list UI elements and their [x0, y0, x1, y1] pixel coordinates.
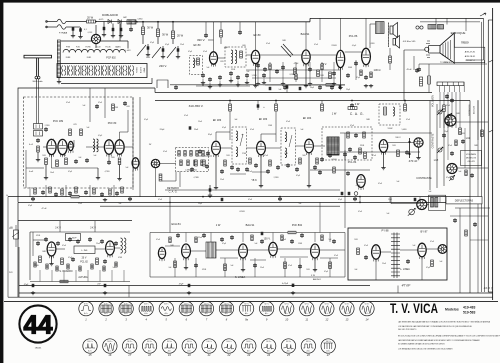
svg-text:47nF: 47nF [66, 102, 70, 104]
svg-text:47µF: 47µF [68, 171, 72, 173]
svg-text:47nF: 47nF [203, 51, 207, 53]
right margin tick b [489, 130, 493, 132]
svg-text:EN LOS ZOCALOS DE LOS CONECTOR: EN LOS ZOCALOS DE LOS CONECTORES LA CIFR… [398, 335, 500, 338]
svg-text:A/W-47-91: A/W-47-91 [465, 51, 476, 54]
capacitor lo 2 [406, 259, 410, 263]
capacitor under tube 2 [85, 158, 89, 162]
waveform circle 12 [320, 301, 334, 321]
svg-text:22nF: 22nF [220, 179, 224, 181]
right lower extra [450, 215, 488, 217]
svg-text:25nF: 25nF [96, 243, 100, 245]
svg-text:L.HFR: L.HFR [126, 50, 132, 52]
svg-text:47pF: 47pF [222, 243, 226, 245]
double line right col [481, 22, 483, 292]
wire crt 2 [446, 18, 448, 24]
svg-text:2nF: 2nF [169, 267, 172, 269]
coil interstage [93, 139, 95, 152]
resistor retardo r5 [202, 151, 204, 157]
resistor drop IF1 [229, 101, 231, 105]
wire bus B+ IF [155, 100, 470, 102]
svg-text:44: 44 [24, 310, 53, 340]
wire sound 1 [218, 57, 226, 59]
svg-text:0,1KF: 0,1KF [88, 32, 93, 34]
turret box [57, 64, 147, 78]
svg-text:1nF: 1nF [429, 191, 432, 193]
svg-text:47µF: 47µF [446, 177, 450, 179]
svg-text:PCF80: PCF80 [85, 47, 90, 49]
waveform circle 18 [142, 339, 156, 357]
svg-text:1nF: 1nF [119, 203, 122, 205]
wire tuner net 3 [124, 146, 133, 148]
sound row extra parts [257, 62, 259, 82]
svg-text:1nF: 1nF [301, 129, 304, 131]
svg-text:47nF: 47nF [248, 199, 252, 201]
waveform circle 21 [202, 339, 216, 357]
capacitor C doubler 1 [103, 27, 106, 30]
svg-text:VOLUMEN: VOLUMEN [432, 95, 435, 107]
coil peaking [393, 107, 395, 116]
wire IF link3 [265, 147, 281, 149]
svg-text:23: 23 [246, 353, 250, 357]
waveform circle 14 [360, 301, 374, 321]
capacitor 2nF [104, 284, 107, 287]
svg-text:100 V·s: 100 V·s [147, 341, 152, 343]
waveform circle 2 [99, 301, 113, 321]
wire pcl84 row [310, 169, 370, 171]
resistor drop IF2 [275, 101, 277, 105]
svg-text:50 V·s: 50 V·s [204, 304, 209, 306]
wire lo c [426, 248, 438, 250]
resistor retardo r6 [180, 160, 182, 166]
CRT grid lines [443, 40, 451, 59]
wire socket right [160, 163, 176, 165]
vert 213 to bus [213, 40, 215, 52]
wire jumper diag 2 [152, 47, 161, 58]
wire agc row [162, 180, 176, 182]
svg-text:470pF: 470pF [356, 185, 361, 187]
tube PCF80 a [104, 140, 113, 157]
IF1 coil b [236, 147, 238, 157]
antenna [24, 55, 52, 76]
capacitor crt [415, 68, 419, 72]
wire drop x143 [142, 22, 144, 27]
ground sy 3 [314, 258, 316, 268]
svg-text:VOLUMEN: VOLUMEN [466, 154, 476, 156]
resistor surge [127, 20, 136, 24]
wire bus y206 partial [100, 205, 340, 207]
wire left y220 [18, 220, 132, 222]
svg-text:47KΩ: 47KΩ [36, 235, 41, 237]
svg-text:1,2KΩ: 1,2KΩ [252, 75, 257, 77]
wire right col a [429, 101, 431, 191]
capacitor sound a [263, 67, 267, 71]
svg-text:1nF: 1nF [440, 261, 443, 263]
waveform circle 20 [182, 339, 196, 357]
badge 44 circle [19, 305, 56, 342]
CRT neck [429, 45, 441, 47]
wire bus join [309, 18, 311, 21]
resistor sound c [329, 72, 332, 79]
arrow mark top right [480, 13, 486, 16]
svg-text:30 W: 30 W [147, 25, 154, 29]
capacitor top 240 [238, 30, 242, 34]
svg-text:1nF: 1nF [255, 243, 258, 245]
wire IF link5 [313, 145, 325, 147]
svg-text:1nF: 1nF [113, 267, 116, 269]
svg-text:BAA 91: BAA 91 [301, 32, 310, 36]
waveform circle 24 [261, 339, 275, 357]
capacitor sy 1 [194, 263, 198, 267]
wire IF link4 [296, 145, 305, 147]
svg-text:1nF: 1nF [387, 213, 390, 215]
resistor lo 1 [357, 248, 360, 255]
riser sync left [169, 197, 171, 233]
svg-text:50 V·s: 50 V·s [285, 304, 290, 306]
capacitor mains [72, 27, 75, 30]
vertical x470 [469, 101, 471, 294]
waveform circle 27 [321, 339, 335, 357]
rightmost verticals [459, 208, 461, 293]
sound coil 2 [231, 50, 233, 64]
wire defl [391, 203, 417, 205]
svg-text:50 V·s: 50 V·s [305, 304, 310, 306]
svg-text:82pF: 82pF [208, 134, 212, 136]
antenna connector [35, 76, 38, 79]
wire vert section b [56, 248, 65, 250]
wire jumper diag 3 [167, 47, 176, 58]
svg-text:C. A. G.: C. A. G. [169, 191, 178, 194]
svg-text:47nF: 47nF [350, 125, 354, 127]
svg-text:2,2KΩ: 2,2KΩ [45, 125, 50, 127]
tube PCL86 pentode [362, 48, 371, 67]
svg-text:47nF: 47nF [266, 43, 270, 45]
right col extra [446, 121, 450, 125]
waveform circle 22 [222, 339, 236, 357]
svg-text:50 V·s: 50 V·s [365, 304, 370, 306]
svg-text:50 V·s: 50 V·s [184, 304, 189, 306]
svg-text:PL81: PL81 [76, 47, 80, 49]
ground sound 1 [255, 64, 257, 84]
svg-text:470KΩ: 470KΩ [239, 211, 245, 213]
resistor 20 W 3 [172, 31, 175, 39]
resistor row [326, 84, 334, 87]
capacitor C doubler 2 [112, 28, 115, 31]
wire tuner bottom to bus [61, 83, 152, 85]
resistor retardo r9 [201, 160, 203, 166]
wire bus top right [310, 17, 484, 19]
resistor vs 1 [39, 256, 42, 263]
svg-text:2 W: 2 W [355, 102, 360, 106]
speaker 2 [393, 36, 400, 49]
wire tuner out 3 [127, 110, 129, 132]
svg-text:100 V·s: 100 V·s [286, 341, 291, 343]
yoke coil 2 [435, 198, 438, 208]
svg-text:22nF: 22nF [180, 44, 184, 46]
svg-text:LUZ: LUZ [434, 159, 439, 162]
svg-text:150 V.: 150 V. [264, 238, 271, 241]
wire mains to doubler [66, 21, 87, 23]
svg-text:5%W: 5%W [388, 128, 393, 130]
wire sound 3 [260, 54, 302, 56]
capacitor row a [174, 85, 178, 89]
svg-text:DOBLADOR: DOBLADOR [102, 13, 118, 17]
resistor under tube 1 [45, 158, 48, 165]
transformer output [376, 22, 385, 34]
svg-text:20 W: 20 W [87, 15, 94, 19]
dashed box video peaking [379, 104, 400, 125]
ground tuner 3 [119, 165, 121, 178]
capacitor 25nF [189, 126, 192, 129]
svg-text:20: 20 [187, 353, 191, 357]
flyback transformer [391, 233, 400, 279]
ground video [383, 152, 385, 166]
capacitor 47uF [32, 284, 35, 287]
svg-text:1 W: 1 W [216, 223, 221, 227]
wire feed pcf [104, 88, 106, 118]
capacitor 047 sync [292, 284, 295, 287]
sound row grid wires [246, 69, 340, 71]
svg-text:47µF: 47µF [426, 267, 430, 269]
wire sound 5 [345, 51, 362, 53]
box line output [348, 228, 447, 280]
box L INF [74, 246, 95, 254]
dashed box IF transformer 2 [281, 128, 296, 165]
svg-text:27: 27 [326, 353, 330, 357]
wire below resistor 1 [142, 35, 144, 45]
dashed box IF transformer 3 [322, 127, 372, 160]
resistor sy 5 [288, 231, 296, 234]
svg-text:ENFOQUE: ENFOQUE [451, 31, 466, 35]
wire tuner vert a [51, 155, 53, 168]
svg-text:47nF: 47nF [286, 121, 290, 123]
svg-text:1nF: 1nF [94, 155, 97, 157]
svg-text:100 V·s: 100 V·s [207, 341, 212, 343]
CRT neck parts [428, 25, 436, 30]
svg-text:47KΩ: 47KΩ [202, 269, 207, 271]
svg-text:300Ω cable: 300Ω cable [32, 81, 43, 83]
svg-text:50 V·s: 50 V·s [104, 304, 109, 306]
wire doubler to rect [95, 25, 97, 34]
tube PCL84 pentode [357, 175, 365, 190]
svg-text:NO DEBEN USARSE DE MAS DE UN K: NO DEBEN USARSE DE MAS DE UN KILOHM POR … [398, 343, 445, 346]
svg-text:50 V·s: 50 V·s [345, 304, 350, 306]
capacitor filter 3 [177, 48, 180, 51]
tube PCF802 pentode [311, 244, 320, 261]
parts row left y188-200 [34, 188, 37, 194]
wire sync c [247, 249, 268, 251]
IF strip extra [198, 149, 202, 153]
CRT base connector [425, 47, 429, 51]
wire right drop [483, 18, 485, 60]
wire below resistor 3 [172, 39, 174, 45]
svg-text:MODELOS: MODELOS [466, 158, 477, 160]
separator line [4, 300, 498, 302]
tube BAA91 [302, 50, 310, 67]
capacitor y199 a [31, 197, 35, 201]
svg-text:100 V·s: 100 V·s [87, 341, 92, 343]
svg-text:1nF: 1nF [207, 67, 210, 69]
wire pcf plate [119, 132, 121, 140]
pot volumen [437, 109, 443, 115]
svg-text:2,2KΩ: 2,2KΩ [274, 177, 279, 179]
border top bar [0, 0, 500, 3]
tube PCL84 triode [379, 140, 387, 155]
svg-text:MAT: MAT [123, 16, 126, 19]
svg-text:47µF: 47µF [28, 205, 32, 207]
capacitor IF small [190, 167, 194, 171]
resistor right col [459, 128, 462, 135]
resistor IF small [316, 158, 319, 164]
resistor peaking [384, 107, 387, 115]
dashed box IF transformer 1 [232, 127, 247, 164]
ground sy 2 [242, 258, 244, 268]
wire bus 310-350V [155, 92, 432, 94]
svg-text:419-423: 419-423 [467, 161, 475, 163]
svg-text:50 V·s: 50 V·s [164, 304, 169, 306]
svg-text:2,2MΩ: 2,2MΩ [33, 265, 39, 267]
video amp ground bus [196, 85, 250, 87]
box yoke coils [429, 195, 446, 210]
svg-text:1nF: 1nF [87, 127, 90, 129]
border right line [492, 8, 494, 300]
svg-text:47nF: 47nF [378, 183, 382, 185]
risers bus196 [359, 197, 361, 203]
svg-text:47µF: 47µF [324, 271, 328, 273]
svg-text:PCL 86: PCL 86 [349, 34, 358, 38]
tuner input coil winding [57, 40, 60, 78]
wire video box left [344, 133, 346, 228]
waveform circle 8 [219, 301, 233, 321]
svg-text:47nF: 47nF [98, 102, 102, 104]
svg-text:50 V·s: 50 V·s [144, 304, 149, 306]
resistor drop IF3 [321, 101, 323, 105]
tube PCL86 triode [336, 50, 344, 70]
svg-text:30 W: 30 W [162, 32, 169, 36]
svg-text:47nF: 47nF [406, 119, 410, 121]
svg-text:220pF: 220pF [160, 129, 165, 131]
resistor y199 [71, 195, 79, 198]
dashed box retardo [176, 148, 209, 172]
vert risers [39, 270, 41, 282]
svg-text:47µF: 47µF [338, 199, 342, 201]
pot contraste [437, 147, 443, 153]
tube EF80 sound [251, 50, 259, 66]
resistor crt [420, 77, 423, 86]
tube EH90 [158, 247, 165, 261]
svg-text:5,6KΩ: 5,6KΩ [402, 129, 407, 131]
svg-text:2nF: 2nF [355, 269, 358, 271]
IF2 arrow [289, 135, 292, 147]
wire crt top2 [420, 21, 480, 23]
wire tuner out 1 [132, 97, 134, 190]
waveform circle 25 [281, 339, 295, 357]
wire vert section a [33, 239, 47, 241]
tube video amp small [132, 158, 139, 171]
waveform circle 6 [179, 301, 193, 321]
svg-text:100 V·s: 100 V·s [167, 341, 172, 343]
svg-text:1nF: 1nF [319, 173, 322, 175]
capacitor y199 d [278, 197, 282, 201]
wire lo b [400, 249, 418, 251]
svg-text:47µF: 47µF [222, 127, 226, 129]
resistor video 2 [397, 150, 400, 157]
svg-text:100 V·s: 100 V·s [266, 341, 271, 343]
capacitor row d [339, 85, 342, 88]
tube BY87 [418, 243, 426, 259]
svg-text:ECH 84: ECH 84 [171, 222, 181, 226]
tube EF183 1 [212, 141, 221, 157]
svg-text:50µF: 50µF [310, 87, 314, 89]
wire sync a [190, 250, 206, 252]
capacitor sy 2 [253, 263, 257, 267]
sync risers [185, 233, 187, 243]
wire tr [370, 23, 376, 25]
tube socket EH90 [151, 159, 159, 167]
resistor retardo r2 [184, 151, 186, 157]
svg-text:PCL82: PCL82 [95, 47, 100, 49]
svg-text:470KΩ: 470KΩ [459, 133, 465, 135]
resistor 30 W 2 [157, 29, 160, 37]
sync strip extra [169, 237, 171, 243]
riser baa91 [305, 22, 307, 50]
capacitor video 2 [353, 155, 357, 159]
svg-text:47nF: 47nF [156, 239, 160, 241]
svg-text:50 V·s: 50 V·s [84, 304, 89, 306]
wire balun [35, 97, 37, 124]
wire socket down [155, 168, 157, 197]
wire tuner agc [26, 167, 44, 169]
pcl86 cathode parts [370, 72, 372, 78]
svg-text:220KΩ: 220KΩ [331, 45, 337, 47]
wire right col b [436, 104, 438, 188]
capacitor sy 4 [261, 232, 264, 235]
waveform circle 1 [79, 301, 93, 321]
waveform circle 15 [83, 339, 97, 357]
speaker 1 [390, 23, 398, 38]
resistor balun [37, 146, 40, 152]
diode D1 [108, 20, 111, 24]
svg-text:230 V.: 230 V. [159, 64, 167, 68]
pot yoke [446, 113, 452, 119]
capacitor sr a [269, 87, 272, 90]
svg-text:CONTRASTE: CONTRASTE [432, 133, 435, 148]
resistor under tube 3 [65, 158, 68, 165]
svg-text:LAS TENSIONES INDICADAS HAN SI: LAS TENSIONES INDICADAS HAN SIDO TOMADAS… [398, 321, 491, 324]
wire bus y297 [8, 296, 493, 298]
tube PCF802 triode [269, 242, 277, 258]
capacitor IF small [245, 167, 249, 171]
tube socket right 2 [447, 164, 457, 174]
fuse F1 [57, 19, 66, 24]
svg-text:PCL86: PCL86 [105, 47, 110, 49]
wire mains top [46, 21, 57, 23]
video amp bottom caps [201, 73, 205, 77]
pot luz [449, 175, 455, 181]
wire sound 4 [310, 54, 336, 56]
svg-text:2nF: 2nF [79, 157, 82, 159]
svg-text:47nF: 47nF [288, 265, 292, 267]
waveform circle 11 [300, 301, 314, 321]
svg-text:A/W-28-91: A/W-28-91 [465, 55, 476, 58]
dashed line speaker [388, 23, 390, 48]
ground sound 3 [340, 68, 342, 86]
svg-text:4x125: 4x125 [99, 19, 104, 21]
svg-text:20 V: 20 V [82, 258, 87, 260]
svg-text:T. V. VICA: T. V. VICA [390, 300, 438, 316]
svg-text:1nF: 1nF [126, 167, 129, 169]
svg-text:47nF: 47nF [62, 245, 66, 247]
wire drops from bus18 [319, 18, 321, 40]
